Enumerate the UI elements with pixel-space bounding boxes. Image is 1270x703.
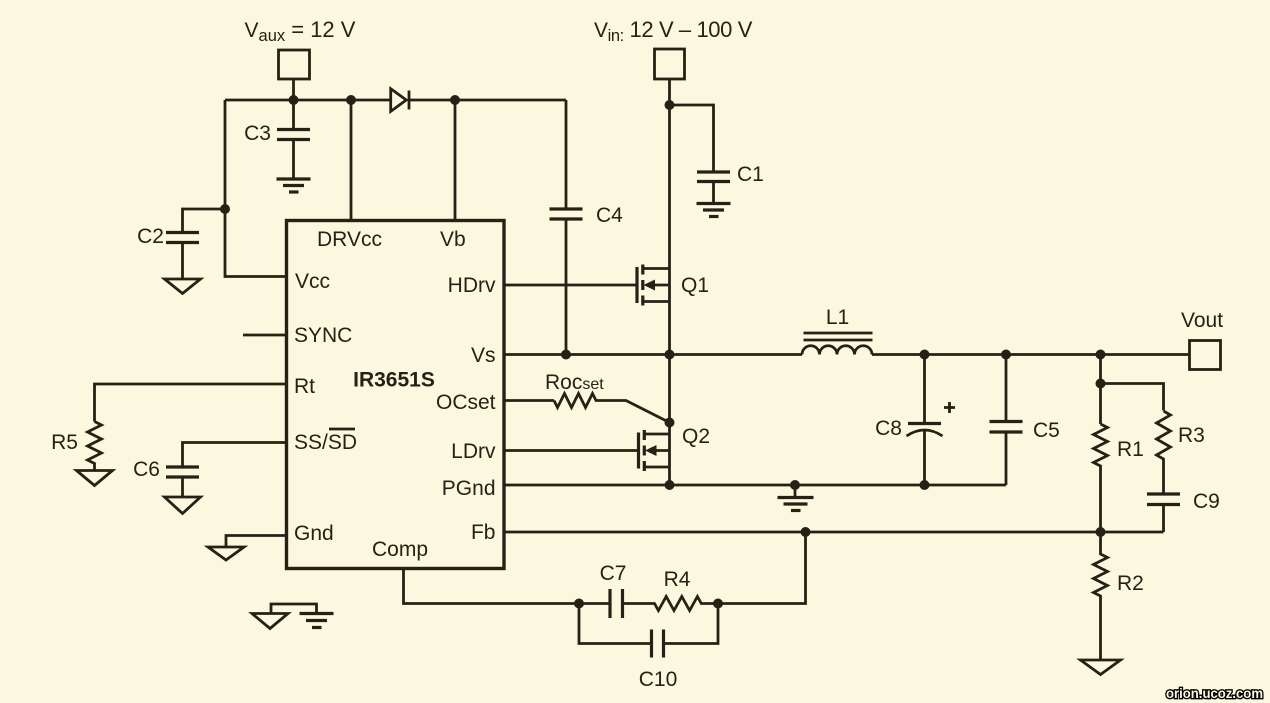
terminal Vout (1190, 341, 1221, 370)
wire Vs to Q2 drain (668, 355, 671, 435)
wire Gnd pin (226, 536, 287, 548)
capacitor C9 (1147, 490, 1220, 532)
resistor R4 (624, 568, 718, 611)
wire HDrv to Q1 gate (504, 284, 637, 287)
wire OCset to Rocset (504, 399, 554, 402)
ground C1 (earth) (697, 204, 731, 217)
svg-text:C6: C6 (133, 458, 160, 481)
ground R5 (arrow) (77, 471, 113, 486)
pin label LDrv (451, 440, 496, 463)
svg-text:IR3651S: IR3651S (353, 369, 435, 392)
svg-text:orion.ucoz.com: orion.ucoz.com (1166, 685, 1263, 701)
svg-text:HDrv: HDrv (448, 274, 496, 297)
capacitor C3 (244, 100, 310, 179)
ground Gnd pin (arrow) (208, 547, 244, 560)
ground C2 (arrow) (165, 279, 201, 294)
junction dot C8 bottom (920, 480, 930, 490)
svg-text:C1: C1 (737, 163, 764, 186)
ground PGnd (earth) (778, 485, 814, 511)
junction dot C3 top (289, 95, 299, 105)
pin label DRVcc (317, 228, 382, 251)
resistor R2 (1094, 532, 1144, 660)
junction dot OCset/Q2 drain (665, 418, 675, 428)
junction dot C8 top (920, 350, 930, 360)
svg-text:R5: R5 (51, 431, 78, 454)
wire R3 branch top (1101, 384, 1164, 411)
svg-text:R2: R2 (1117, 572, 1144, 595)
svg-text:Rt: Rt (294, 375, 315, 398)
junction dot R4/C10 (713, 599, 723, 609)
pin label PGnd (442, 477, 496, 500)
svg-text:R3: R3 (1178, 424, 1205, 447)
ground chassis below IC (252, 604, 334, 629)
wire DRVcc pin (350, 100, 353, 220)
wire Vaux-to-Vcc (225, 100, 287, 277)
junction dot Q2 source (665, 480, 675, 490)
svg-text:SYNC: SYNC (294, 324, 352, 347)
wire R4 to Fb (718, 532, 806, 604)
svg-text:LDrv: LDrv (451, 440, 496, 463)
inductor L1 (802, 306, 873, 355)
svg-text:R1: R1 (1117, 438, 1144, 461)
node Vout label (1181, 309, 1223, 332)
svg-text:Q1: Q1 (681, 274, 709, 297)
junction dot Vout divider (1096, 350, 1106, 360)
svg-text:Vcc: Vcc (295, 270, 330, 293)
capacitor C4 (550, 100, 624, 355)
node Vin label (594, 17, 753, 45)
wire Rt to R5 (95, 384, 287, 422)
capacitor C10 (579, 604, 718, 692)
capacitor C6 (133, 458, 199, 497)
svg-text:C9: C9 (1193, 490, 1220, 513)
junction dot C4/Vs (561, 350, 571, 360)
wire Vin drain (668, 105, 671, 269)
svg-text:SS/SD: SS/SD (294, 431, 357, 454)
ground C6 (arrow) (165, 497, 201, 514)
capacitor C1 (670, 105, 764, 204)
svg-text:R4: R4 (664, 568, 691, 591)
wire Q1 source to Vs (668, 302, 671, 355)
wire Vout to R1 (1099, 355, 1102, 425)
resistor R1 (1094, 424, 1144, 532)
junction dot Vin/C1 (665, 100, 675, 110)
pin label Comp (372, 538, 428, 561)
svg-text:Vb: Vb (440, 228, 466, 251)
pin label HDrv (448, 274, 496, 297)
ground C3 (earth) (277, 179, 311, 192)
wire Fb rail (504, 531, 1164, 534)
transistor Q1 (637, 265, 709, 306)
pin label Vcc (295, 270, 330, 293)
junction dot Q1/Q2/Vs (665, 350, 675, 360)
pin label Fb (471, 521, 496, 544)
pin label SS/SD with overline (294, 429, 357, 454)
node Vaux label (245, 17, 356, 45)
svg-text:DRVcc: DRVcc (317, 228, 382, 251)
junction dot R1/R3 split (1096, 379, 1106, 389)
wire Comp pin down (404, 569, 580, 604)
svg-text:C4: C4 (596, 204, 623, 227)
resistor R5 (51, 422, 101, 471)
wire Vaux rail (225, 99, 566, 102)
svg-text:Gnd: Gnd (294, 522, 334, 545)
wire Vb pin (454, 100, 457, 220)
svg-text:Vs: Vs (471, 344, 496, 367)
junction dot Comp/C7/C10 (574, 599, 584, 609)
capacitor C8 polarized (875, 355, 955, 486)
wire SYNC stub (243, 334, 287, 337)
svg-text:PGnd: PGnd (442, 477, 496, 500)
svg-text:C2: C2 (137, 225, 164, 248)
svg-text:Vout: Vout (1181, 309, 1223, 332)
junction dot R1/R2 (1096, 527, 1106, 537)
watermark orion.ucoz.com (1166, 685, 1263, 701)
svg-text:C3: C3 (244, 122, 271, 145)
svg-text:C8: C8 (875, 417, 902, 440)
junction dot C5 top (1001, 350, 1011, 360)
IC U1 IR3651S box (287, 221, 505, 569)
terminal Vin (655, 49, 685, 105)
diode D1 (391, 89, 409, 112)
junction dot Fb/comp net (801, 527, 811, 537)
svg-text:Fb: Fb (471, 521, 496, 544)
junction dot Vb top (450, 95, 460, 105)
svg-text:C7: C7 (600, 562, 627, 585)
pin label SYNC (294, 324, 352, 347)
terminal Vaux (279, 50, 310, 100)
svg-text:Comp: Comp (372, 538, 428, 561)
resistor Rocset (545, 371, 670, 423)
svg-text:C10: C10 (639, 668, 678, 691)
pin label Vb (440, 228, 466, 251)
ground R2 (arrow) (1081, 660, 1121, 675)
wire LDrv to Q2 gate (504, 449, 639, 452)
capacitor C5 (990, 355, 1060, 486)
svg-text:C5: C5 (1033, 419, 1060, 442)
pin label Rt (294, 375, 315, 398)
resistor R3 (1157, 411, 1205, 493)
pin label OCset (436, 391, 496, 414)
junction dot PGnd ground (790, 480, 800, 490)
junction dot C2 tap (220, 204, 230, 214)
wire PGnd rail (504, 484, 1006, 487)
wire L1 to Vout (872, 353, 1190, 356)
svg-text:L1: L1 (826, 306, 849, 329)
capacitor C7 (579, 562, 626, 618)
wire Q2 source to PGnd (668, 467, 671, 485)
pin label Vs (471, 344, 496, 367)
wire Vs rail (504, 353, 802, 356)
junction dot DRVcc top (346, 95, 356, 105)
svg-text:OCset: OCset (436, 391, 496, 414)
capacitor C2 (137, 209, 225, 279)
transistor Q2 (639, 425, 711, 471)
pin label Gnd (294, 522, 334, 545)
wire SS/SD to C6 (183, 443, 287, 466)
svg-text:Q2: Q2 (682, 425, 710, 448)
